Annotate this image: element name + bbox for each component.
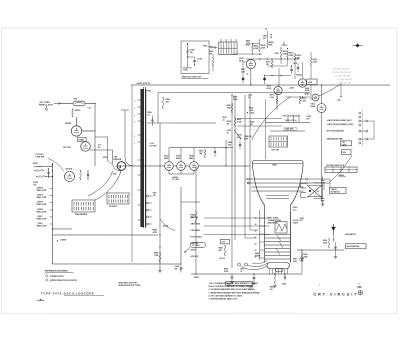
svg-text:R860 SERIES: R860 SERIES [75, 214, 88, 216]
transformer T801 winding [140, 89, 144, 227]
svg-text:4. CRT CATHODE ELEVATED TO: 4. CRT CATHODE ELEVATED TO -1850V. [208, 294, 242, 297]
svg-text:3. WAVEFORMS OBTAINED WITH H: 3. WAVEFORMS OBTAINED WITH HIGH IMPEDANC… [208, 291, 260, 294]
deflection plate D1 [249, 178, 305, 180]
wire vertical x112 [90, 149, 113, 151]
capacitor C808 [151, 119, 153, 121]
wire base arcs [247, 263, 267, 267]
tube V820 [317, 104, 326, 113]
wire box out stub [209, 46, 214, 48]
resistor R858 [195, 211, 197, 213]
boxed label astigmatism [345, 244, 366, 249]
wire x311 [310, 66, 312, 79]
wire x232 vertical [231, 95, 233, 268]
wire fuse to node [85, 102, 95, 104]
svg-text:FDBK: FDBK [79, 139, 85, 141]
plate feedthrough ticks [287, 115, 289, 123]
svg-text:270 220 1W 4700: 270 220 1W 4700 [335, 75, 352, 78]
svg-text:LINE SW: LINE SW [36, 156, 45, 158]
capacitor C5050 [47, 171, 49, 173]
svg-text:R840 2.2M: R840 2.2M [36, 189, 46, 192]
ground symbol below panel light [45, 108, 48, 111]
resistor R815 [294, 53, 296, 55]
resistor R848 [224, 245, 226, 247]
svg-text:2. VOLTAGES MEASURED WITH 20,0: 2. VOLTAGES MEASURED WITH 20,000 OHM/V M… [208, 288, 255, 291]
diode D805 [242, 78, 245, 81]
gun bar hatches [276, 235, 283, 255]
svg-text:Q5064: Q5064 [65, 167, 72, 170]
svg-text:.005: .005 [33, 184, 36, 186]
resistor block ceramic strip B [107, 193, 129, 204]
wire x265 riser to CRT face [265, 100, 267, 159]
svg-text:C810: C810 [275, 53, 279, 55]
svg-text:6DJ8: 6DJ8 [267, 88, 271, 90]
svg-text:TO SEC OF: TO SEC OF [183, 67, 192, 69]
svg-text:330K: 330K [233, 99, 238, 101]
switch contacts col2 [366, 120, 368, 122]
svg-text:+GATE FROM B SWEEP (CHOP): +GATE FROM B SWEEP (CHOP) [327, 123, 354, 126]
wire top bus [246, 58, 298, 60]
svg-text:1.8M: 1.8M [154, 255, 159, 257]
wire geometry pot [332, 234, 334, 240]
resistor R5060 [79, 170, 81, 172]
wire 6kV lead [108, 161, 113, 164]
svg-text:GRID R854: GRID R854 [190, 222, 199, 225]
wire defl risers to amps [244, 95, 246, 120]
svg-text:F801: F801 [74, 99, 78, 101]
selector table [325, 167, 357, 173]
boxed label trace rotation [329, 187, 346, 193]
node dots left cluster [39, 166, 40, 167]
resistor R5051 [34, 169, 36, 171]
ground below C862 [321, 203, 324, 205]
svg-text:HTRS: HTRS [103, 157, 107, 159]
test point callout box [190, 242, 205, 247]
wire x235 vertical [234, 95, 236, 240]
CRT base tab [275, 269, 283, 272]
legend interconnection [45, 279, 48, 282]
wire long vertical x132 [131, 85, 133, 262]
svg-text:5642: 5642 [176, 157, 180, 160]
svg-text:CATH R853: CATH R853 [190, 229, 200, 232]
wire plate bus lower [307, 195, 322, 197]
box graticule supply [181, 41, 209, 73]
svg-text:G2: G2 [254, 250, 256, 252]
svg-text:220K: 220K [261, 47, 266, 49]
svg-text:INTEN: INTEN [255, 255, 261, 257]
svg-text:R803: R803 [246, 45, 250, 47]
graticule capacitor C1183 [193, 59, 196, 61]
svg-text:1.5M: 1.5M [302, 100, 306, 102]
svg-text:FULLY COUNTER-CLOCKWISE, NO: FULLY COUNTER-CLOCKWISE, NO SIGNAL APPLI… [208, 285, 254, 288]
resistor R803 [252, 44, 254, 46]
gun ladder bars [265, 234, 290, 236]
svg-text:.01: .01 [240, 271, 242, 273]
svg-text:100K: 100K [227, 107, 232, 109]
boxed label EXT CRT [341, 141, 352, 146]
junction dots top [267, 58, 268, 59]
wire stub left cluster [46, 175, 53, 177]
svg-text:270K: 270K [313, 61, 318, 63]
svg-text:270K: 270K [237, 121, 242, 123]
svg-text:470K: 470K [152, 231, 157, 234]
wire plate bus y122 [265, 122, 310, 124]
wire HV line y166 [116, 165, 165, 167]
svg-text:270 220 1W 4700 X2: 270 220 1W 4700 X2 [332, 71, 352, 74]
boxed label 2 [342, 150, 352, 155]
svg-text:HV OSC: HV OSC [63, 147, 72, 149]
svg-text:270 220 1W 470: 270 220 1W 470 [337, 78, 353, 81]
rail second [158, 91, 310, 93]
svg-text:500: 500 [174, 268, 177, 270]
connector symbol [353, 45, 363, 47]
wire V803 leads [250, 69, 252, 85]
CRT V859 screen face [253, 161, 304, 167]
wire vertical x125 [124, 110, 126, 157]
node -8650V junction [57, 240, 58, 241]
capacitor C846 [180, 267, 183, 269]
svg-text:C814: C814 [293, 62, 297, 65]
resistor R813 [287, 51, 289, 53]
box R819 [307, 79, 318, 85]
svg-text:.005: .005 [152, 195, 155, 197]
capacitor C836 [239, 144, 241, 146]
svg-text:V862: V862 [112, 173, 116, 175]
wire y118 to plates [237, 118, 282, 120]
svg-text:-1850V: -1850V [193, 277, 200, 279]
wire plate leads right [308, 178, 330, 180]
rectifier cathode drops [168, 170, 170, 174]
CRT base pins [268, 269, 270, 275]
wire x196 gun feed [195, 166, 197, 274]
wire plate bus y131 [270, 130, 305, 132]
wires top cluster verticals [278, 68, 280, 86]
capacitor C822 [214, 151, 216, 153]
wire arrow to fuse F801 [54, 103, 61, 105]
capacitor C5062 [87, 173, 89, 175]
diode D806 [263, 78, 266, 81]
svg-text:L830: L830 [250, 112, 254, 114]
svg-text:PIN 14: PIN 14 [219, 257, 224, 260]
svg-text:UNBLANK: UNBLANK [285, 128, 294, 131]
boxed label heater [220, 239, 229, 244]
wire left defl risers [244, 120, 246, 238]
svg-text:C856: C856 [282, 284, 286, 286]
svg-text:CATH: CATH [342, 143, 347, 146]
wire x160 vertical [159, 123, 161, 270]
svg-text:R841 2.2M: R841 2.2M [36, 196, 46, 199]
resistor R5063 [36, 175, 38, 177]
resistor R823 [204, 149, 206, 151]
resistor R810 [271, 60, 273, 62]
transistor Q820 [312, 94, 319, 101]
title circled ref [358, 290, 362, 294]
svg-text:+GATE FROM A SWEEP (ALT): +GATE FROM A SWEEP (ALT) [327, 119, 352, 122]
svg-text:.1: .1 [197, 61, 198, 63]
wire y97 right [285, 96, 310, 98]
svg-text:FOCUS R852: FOCUS R852 [190, 236, 201, 238]
arrow to socket [209, 47, 217, 49]
shield plates [266, 195, 289, 197]
svg-text:HTR 6.3V: HTR 6.3V [190, 256, 199, 258]
wire y66 bus [267, 65, 287, 67]
graticule resistor R1183 [187, 43, 189, 49]
svg-text:TP -8650: TP -8650 [192, 245, 199, 247]
capacitor C814 [297, 67, 299, 69]
socket grid J800 [219, 42, 238, 55]
capacitor C862 bottom [321, 198, 324, 200]
wire vertical x107 [95, 136, 108, 138]
wire notch [181, 201, 200, 203]
svg-text:.01: .01 [222, 119, 225, 121]
tube V814 A [274, 86, 282, 94]
transistor Q5064 [64, 171, 74, 181]
svg-text:R855 2M: R855 2M [190, 217, 198, 219]
wire switch out [368, 120, 374, 122]
capacitor C852 [231, 276, 233, 278]
wire box bottom [147, 122, 216, 124]
rail to rectifiers [169, 146, 233, 148]
wire shield box bottom [52, 263, 180, 265]
capacitor C860 top [321, 180, 324, 182]
wire arc transformer to divider [88, 171, 113, 196]
svg-text:1/2: 1/2 [246, 74, 248, 76]
CRT funnel left wall [252, 166, 264, 212]
svg-text:Q5054: Q5054 [65, 122, 72, 125]
svg-text:Q820: Q820 [305, 94, 309, 96]
deflection plate bracket lower [301, 192, 306, 197]
svg-text:1. ALL VOLTAGES MEASURED WITH: 1. ALL VOLTAGES MEASURED WITH INTENSITY … [208, 282, 259, 285]
CRT funnel right wall [290, 166, 303, 212]
bottom rail [191, 273, 302, 275]
resistor R891 [212, 57, 214, 59]
deflection plate bracket upper [301, 183, 306, 188]
svg-text:470K: 470K [323, 241, 328, 244]
junction dots rail 85 [250, 84, 251, 85]
deflection plate D4 [251, 190, 303, 192]
svg-text:GEOMETRY: GEOMETRY [345, 234, 357, 236]
resistor R806 [267, 40, 269, 42]
svg-text:3.3M: 3.3M [270, 97, 274, 99]
svg-text:+225V: +225V [289, 88, 295, 90]
svg-text:-8650V: -8650V [60, 240, 67, 242]
wire curve to +12V [319, 84, 342, 97]
resistor R856 [274, 274, 276, 276]
svg-text:R842 2.2M: R842 2.2M [36, 203, 46, 206]
svg-text:ASTIGMATISM: ASTIGMATISM [347, 245, 360, 248]
heater winding indicator V862 [117, 162, 126, 171]
resistor R862 bleeder [301, 252, 303, 254]
svg-text:CRT CIRCUIT: CRT CIRCUIT [313, 293, 358, 297]
transformer primary taps [138, 99, 141, 101]
wire arc heater winding to divider [95, 171, 121, 200]
wire graticule branch [188, 56, 195, 58]
svg-text:INTERCONNECTING SOCKETS: INTERCONNECTING SOCKETS [50, 280, 78, 282]
svg-text:100K: 100K [254, 48, 259, 50]
resistor R805 [259, 43, 261, 45]
svg-text:(SEE NOTE 4): (SEE NOTE 4) [285, 119, 297, 122]
wire neck feeds [204, 217, 270, 219]
svg-text:TYPE 547A OSCILLOSCOPE: TYPE 547A OSCILLOSCOPE [41, 291, 95, 295]
label L830 [247, 112, 248, 113]
svg-text:V814B: V814B [296, 74, 302, 77]
node below rectifiers [172, 178, 173, 179]
svg-text:T1180: T1180 [183, 70, 188, 72]
svg-text:.01: .01 [147, 114, 150, 116]
svg-text:270: 270 [299, 220, 302, 222]
svg-text:FOCUS: FOCUS [293, 220, 299, 222]
svg-text:REFERENCE DIAGRAMS: REFERENCE DIAGRAMS [45, 270, 68, 273]
svg-text:-8650: -8650 [175, 179, 179, 181]
wire plate bus upper [313, 182, 324, 184]
svg-text:5642: 5642 [164, 157, 168, 160]
svg-text:CRT GRID SELECTOR: CRT GRID SELECTOR [326, 165, 345, 167]
legend power supply [45, 274, 48, 277]
wire box left edge [157, 92, 159, 123]
svg-text:V859: V859 [293, 261, 297, 263]
svg-text:R851 1M: R851 1M [190, 243, 198, 245]
ground astig [334, 250, 336, 256]
resistor block ceramic strip A [72, 200, 95, 212]
resistor R818 [310, 57, 312, 59]
capacitor C856 [284, 276, 286, 278]
wire x302 riser [301, 250, 303, 274]
svg-text:G2: G2 [254, 244, 256, 246]
svg-text:+325V (DCPL): +325V (DCPL) [136, 83, 150, 85]
capacitor C813 [290, 69, 292, 71]
svg-text:SEMICONDUCTOR TYPES: SEMICONDUCTOR TYPES [118, 285, 141, 287]
svg-text:.005: .005 [228, 144, 232, 146]
tube V814 B [298, 79, 306, 87]
svg-text:CRT SKT: CRT SKT [272, 149, 281, 151]
wire V820 leads [321, 85, 323, 103]
svg-text:270 220 1W: 270 220 1W [340, 83, 351, 85]
wire arc socket to left [252, 97, 291, 140]
transformer secondary taps [147, 195, 149, 197]
wire risers right [329, 179, 331, 187]
svg-text:5642: 5642 [189, 157, 193, 160]
svg-text:.001: .001 [263, 38, 266, 40]
svg-text:470K: 470K [224, 270, 229, 273]
wire left cluster [34, 165, 53, 167]
svg-text:PINS: PINS [293, 259, 297, 261]
svg-text:120K: 120K [289, 55, 294, 57]
svg-text:(SEE NOTE): (SEE NOTE) [267, 222, 278, 224]
svg-text:G2: G2 [254, 231, 256, 233]
svg-text:R843 2.2M: R843 2.2M [36, 210, 46, 213]
deflection shield line [259, 210, 261, 260]
vertical chain x277 [276, 93, 278, 110]
svg-text:EXT CRT BLANKING: EXT CRT BLANKING [327, 130, 345, 133]
wire chop blank [232, 53, 262, 55]
deflection plate D3 [251, 186, 303, 188]
junction dots rail [253, 273, 254, 274]
svg-text:DEFL PLATE LEADS: DEFL PLATE LEADS [283, 115, 301, 118]
socket pin circles [237, 263, 240, 266]
svg-text:28: 28 [270, 37, 272, 39]
wire line trigger arc [48, 158, 64, 171]
wire gun lead arcs 2 [252, 261, 268, 264]
svg-text:R844 2.2M: R844 2.2M [36, 217, 46, 220]
svg-text:CRT HTR: CRT HTR [150, 145, 158, 147]
wire curve grid return [160, 219, 175, 231]
switch wafer dashed [362, 110, 364, 146]
node +12V [340, 96, 341, 97]
wire divider bottom rail [52, 228, 72, 230]
capacitor C854 [253, 277, 256, 279]
transistor geometry mark [332, 224, 334, 234]
resistor R819b [299, 96, 301, 98]
svg-text:270 220 1W 4700: 270 220 1W 4700 [333, 68, 350, 71]
svg-text:125: 125 [316, 191, 319, 193]
svg-text:UNBLANKING MRP: UNBLANKING MRP [327, 137, 344, 140]
wire Q5054 to bus [82, 130, 95, 132]
svg-text:47K: 47K [166, 100, 170, 103]
svg-text:R5061: R5061 [33, 163, 38, 165]
resistor R833 [234, 117, 236, 119]
svg-text:HV MULT: HV MULT [109, 206, 118, 208]
transistor V800 HV osc [81, 142, 91, 152]
svg-text:HEATER: HEATER [114, 158, 122, 161]
resistor R847 [159, 252, 161, 254]
resistor R801 [162, 97, 164, 99]
svg-text:5. SEE MECHANICAL PARTS LIS: 5. SEE MECHANICAL PARTS LIST. [208, 298, 237, 301]
svg-text:P800: P800 [203, 45, 207, 47]
CRT base [267, 263, 290, 269]
feedback box T801 label [78, 137, 87, 141]
resistor R832 [231, 103, 233, 105]
svg-text:.01: .01 [227, 132, 230, 134]
HV feedback bus left wall [51, 163, 53, 264]
thermal cutout TK801 [72, 108, 74, 110]
ground x160 [158, 269, 161, 271]
rectifier V822 [165, 162, 174, 171]
rectifier V832 [177, 162, 186, 171]
wire astig rail [297, 249, 344, 251]
svg-text:R845 2.2M: R845 2.2M [36, 224, 46, 227]
svg-text:TK801: TK801 [75, 110, 82, 112]
wire y75 bus [264, 75, 291, 77]
CRT neck walls [263, 212, 265, 263]
rectifier V842 [190, 162, 199, 171]
transistor Q5054 HV osc [71, 126, 81, 136]
node dot crossover [309, 190, 311, 192]
resistor R812 [280, 49, 282, 51]
svg-text:6AU8: 6AU8 [311, 105, 316, 108]
wire x226 vertical [225, 140, 227, 166]
svg-text:470: 470 [307, 117, 310, 120]
svg-text:-31-2: -31-2 [292, 209, 296, 211]
svg-text:(NOTE): (NOTE) [163, 225, 169, 227]
resistor R866 [328, 238, 330, 240]
svg-text:GRATICULE LIGHT CKT: GRATICULE LIGHT CKT [182, 76, 202, 79]
svg-text:POWER SUPPLY: POWER SUPPLY [50, 276, 65, 278]
wire arc switch to crt [329, 155, 352, 182]
CRT socket table [269, 136, 288, 147]
svg-text:100K: 100K [308, 82, 313, 84]
dashed label box [284, 127, 297, 130]
svg-text:ASTIG: ASTIG [190, 248, 196, 251]
transformer T801 core [142, 87, 144, 228]
wire riser stubs [245, 237, 256, 239]
wire Q5054 collector [76, 117, 78, 126]
gun helix box [275, 222, 287, 234]
node dots center [244, 165, 245, 166]
crossover wires X [307, 185, 321, 197]
svg-text:SEL: SEL [343, 152, 346, 154]
fuse F801 [73, 101, 85, 106]
revision mark [37, 300, 45, 302]
svg-text:ROTATION: ROTATION [331, 190, 340, 193]
